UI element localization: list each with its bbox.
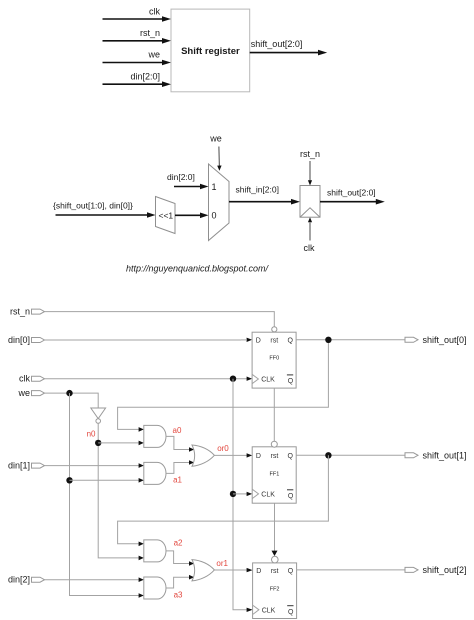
arrowhead a0 lower input <box>139 441 144 446</box>
junction n0/a0 <box>95 440 101 446</box>
svg-text:CLK: CLK <box>261 492 275 499</box>
arrowhead a2 lower input <box>139 556 144 561</box>
svg-text:CLK: CLK <box>262 608 276 615</box>
arrowhead a1 lower input <box>139 478 144 483</box>
arrowhead FF0 D <box>247 338 253 342</box>
wire inverter output / n0 trunk <box>98 423 139 558</box>
svg-text:rst: rst <box>270 337 278 344</box>
inverter n0 <box>87 408 106 439</box>
arrowhead FF1 D <box>247 453 253 457</box>
svg-text:a0: a0 <box>173 426 182 435</box>
arrowhead or1 upper input <box>189 561 194 566</box>
input port we <box>17 388 44 398</box>
svg-text:din[2:0]: din[2:0] <box>130 71 160 81</box>
output wire shift_out[2:0] (middle diagram) <box>320 188 385 205</box>
svg-text:FF1: FF1 <box>270 472 280 478</box>
arrowhead or1 lower input <box>189 575 194 580</box>
svg-text:Q: Q <box>288 493 294 500</box>
wire FF0 Q to output port <box>296 339 405 341</box>
flip-flop FF2 <box>253 556 297 618</box>
wire rst chain FF0 to FF1 <box>273 388 275 441</box>
svg-text:or0: or0 <box>217 444 229 453</box>
and gate a1 <box>144 462 183 484</box>
arrowhead FF2 D <box>247 568 253 572</box>
wire a1 output to or0 <box>166 463 189 474</box>
shifter <<1 <box>156 197 176 234</box>
svg-text:clk: clk <box>304 243 315 253</box>
flip-flop FF0 <box>252 327 296 388</box>
svg-text:din[0]: din[0] <box>8 335 30 345</box>
svg-text:D: D <box>256 453 261 460</box>
svg-text:shift_out[2]: shift_out[2] <box>423 565 467 575</box>
svg-text:D: D <box>256 337 261 344</box>
junction we/trunk <box>66 390 72 396</box>
input wire din[2:0] (top diagram) <box>103 71 172 87</box>
svg-text:shift_in[2:0]: shift_in[2:0] <box>236 185 279 195</box>
wire clk branch FF1 <box>233 493 247 495</box>
arrowhead FF1 CLK <box>247 492 253 496</box>
svg-text:<<1: <<1 <box>159 211 174 221</box>
input port din[2] <box>8 575 45 585</box>
wire a2 output to or1 <box>166 551 189 564</box>
svg-text:shift_out[0]: shift_out[0] <box>423 335 467 345</box>
junction we/a1 <box>66 477 72 483</box>
wire n0 branch to a0 <box>98 442 139 444</box>
svg-text:rst: rst <box>271 453 279 460</box>
svg-text:Q: Q <box>288 609 294 616</box>
svg-text:clk: clk <box>149 6 160 16</box>
svg-text:a2: a2 <box>174 539 183 548</box>
flip-flop FF1 <box>252 441 296 503</box>
arrowhead a0 upper input <box>139 427 144 432</box>
svg-text:0: 0 <box>212 210 217 220</box>
svg-text:FF0: FF0 <box>269 356 279 362</box>
output port shift_out[1] <box>405 450 467 460</box>
svg-text:Q: Q <box>287 337 293 344</box>
wire a0 output to or0 <box>166 436 189 449</box>
output port shift_out[0] <box>405 335 467 345</box>
junction clk/FF0 <box>230 376 236 382</box>
wire we branch to a1 <box>70 479 139 481</box>
svg-text:we: we <box>147 50 160 60</box>
svg-text:clk: clk <box>19 374 30 384</box>
wire a3 output to or1 <box>166 577 189 588</box>
svg-text:Q: Q <box>288 453 294 460</box>
and gate a0 <box>144 425 182 447</box>
input port din[1] <box>8 460 45 470</box>
arrowhead FF0 CLK <box>247 377 253 381</box>
svg-text:shift_out[2:0]: shift_out[2:0] <box>327 188 376 198</box>
arrowhead a3 lower input <box>139 593 144 598</box>
svg-text:http://nguyenquanicd.blogspot.: http://nguyenquanicd.blogspot.com/ <box>126 264 270 274</box>
svg-text:{shift_out[1:0], din[0]}: {shift_out[1:0], din[0]} <box>53 201 133 211</box>
wire we vertical trunk <box>70 393 139 595</box>
wire or0 to FF1 D <box>214 454 247 456</box>
svg-text:rst: rst <box>271 568 279 575</box>
output wire shift_out[2:0] (top diagram) <box>250 39 328 55</box>
svg-text:din[1]: din[1] <box>8 460 30 470</box>
block Shift register <box>171 9 250 92</box>
wire shifter to mux input 0 <box>175 213 209 219</box>
wire or1 to FF2 D <box>214 569 247 571</box>
svg-text:rst_n: rst_n <box>140 28 160 38</box>
wire FF0 Q feedback to a0 <box>118 340 329 430</box>
svg-text:shift_out[1]: shift_out[1] <box>423 450 467 460</box>
wire shift_in[2:0] mux to register <box>229 185 300 205</box>
svg-text:we: we <box>209 134 222 144</box>
arrowhead a2 upper input <box>139 542 144 547</box>
svg-text:n0: n0 <box>87 430 96 439</box>
svg-text:din[2:0]: din[2:0] <box>167 172 195 182</box>
wire din[2] to a3 <box>45 579 139 581</box>
input wire we (top diagram) <box>103 50 172 66</box>
svg-text:D: D <box>256 568 261 575</box>
wire clk to FF0 CLK <box>45 378 247 380</box>
arrowhead a3 upper input <box>139 577 144 582</box>
input wire clk (top diagram) <box>103 6 172 21</box>
svg-text:shift_out[2:0]: shift_out[2:0] <box>251 39 303 49</box>
or gate or0 <box>192 444 229 466</box>
svg-text:Q: Q <box>288 568 294 575</box>
svg-text:Q: Q <box>288 378 294 385</box>
arrowhead FF2 CLK <box>247 608 253 612</box>
svg-text:or1: or1 <box>216 559 228 568</box>
wire FF1 Q feedback to a2 <box>118 455 329 544</box>
arrowhead or0 lower input <box>189 460 194 465</box>
svg-text:Shift register: Shift register <box>181 46 240 57</box>
wire rst_n into register (middle diagram) <box>300 149 320 186</box>
svg-text:FF2: FF2 <box>270 587 280 593</box>
svg-text:din[2]: din[2] <box>8 575 30 585</box>
arrowhead rst into FF2 <box>272 551 278 556</box>
svg-text:CLK: CLK <box>261 377 275 384</box>
wire din[2:0] into mux input 1 <box>167 172 209 189</box>
junction clk/FF1 <box>230 491 236 497</box>
wire rst chain FF1 to FF2 <box>274 503 276 551</box>
wire {shift_out[1:0], din[0]} into shifter <box>53 201 156 218</box>
wire rst_n to FF0 rst <box>45 312 275 327</box>
svg-text:a1: a1 <box>173 476 182 485</box>
junction FF1 Q <box>325 452 331 458</box>
wire din[1] to a1 <box>45 465 139 467</box>
svg-text:rst_n: rst_n <box>300 149 320 159</box>
input wire rst_n (top diagram) <box>103 28 172 44</box>
register (middle diagram) <box>300 186 320 218</box>
arrowhead a1 upper input <box>139 463 144 468</box>
and gate a2 <box>144 539 183 562</box>
input port rst_n <box>10 306 45 316</box>
wire we into mux select <box>209 134 222 171</box>
mux (middle diagram) <box>209 164 230 241</box>
wire clk into register (middle diagram) <box>304 217 315 253</box>
wire FF1 Q to output port <box>296 454 405 456</box>
output port shift_out[2] <box>405 565 467 575</box>
input port clk <box>19 374 45 384</box>
wire FF2 Q to output port <box>297 569 405 571</box>
svg-text:rst_n: rst_n <box>10 306 30 316</box>
svg-text:1: 1 <box>212 182 217 192</box>
wire din[0] to FF0 D <box>45 339 242 341</box>
and gate a3 <box>144 577 183 600</box>
svg-text:we: we <box>17 388 30 398</box>
junction FF0 Q <box>325 337 331 343</box>
or gate or1 <box>192 559 229 581</box>
wire we to inverter <box>45 393 99 408</box>
wire clk vertical trunk <box>233 379 247 610</box>
arrowhead or0 upper input <box>189 447 194 452</box>
svg-text:a3: a3 <box>174 591 183 600</box>
input port din[0] <box>8 335 45 345</box>
